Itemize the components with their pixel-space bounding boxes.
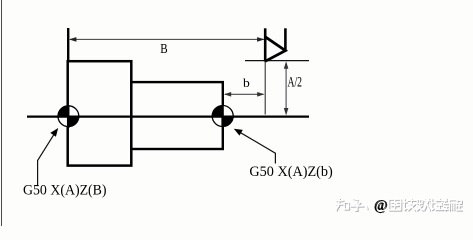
svg-text:G50 X(A)Z(b): G50 X(A)Z(b) [249, 164, 333, 180]
left page border line [1, 0, 3, 226]
svg-text:B: B [160, 42, 167, 57]
dimension A/2 line [285, 63, 287, 114]
leader arrowhead (right) [234, 129, 243, 136]
svg-text:@: @ [374, 197, 387, 213]
leader arrowhead (left) [50, 128, 58, 137]
large cylinder left edge over circle [67, 105, 70, 128]
datum target circle at left (G50 B point) [58, 106, 79, 127]
tool edge horizontal line [245, 60, 309, 62]
datum target circle at right (G50 b point) [212, 106, 233, 127]
dimension B line [70, 38, 264, 40]
workpiece large cylinder [68, 61, 132, 165]
leader line for G50 X(A)Z(b) [237, 130, 276, 163]
axis over right circle [212, 115, 234, 117]
dimension A/2 bottom arrowhead [284, 108, 289, 115]
extension line at left datum [67, 28, 69, 60]
leader line for G50 X(A)Z(B) [38, 131, 57, 186]
dimension b right arrowhead [257, 92, 264, 97]
axis over circle [57, 115, 80, 117]
tool symbol right shank line [284, 28, 287, 51]
svg-text:A/2: A/2 [288, 74, 303, 90]
small cylinder right edge over circle [221, 105, 223, 127]
dimension b line [225, 93, 263, 95]
dimension B right arrowhead [257, 37, 265, 42]
svg-text:G50 X(A)Z(B): G50 X(A)Z(B) [23, 183, 107, 199]
workpiece small cylinder [131, 82, 223, 149]
dimension B left arrowhead [69, 37, 77, 42]
tool symbol cutting triangle [265, 37, 285, 62]
svg-text:b: b [243, 75, 250, 90]
centerline (shaft axis) [27, 115, 309, 117]
dimension A/2 top arrowhead [284, 61, 289, 68]
dimension b left arrowhead [224, 92, 231, 97]
tool tip extension line down to axis [264, 61, 266, 115]
tool symbol left shank line [264, 28, 267, 61]
watermark: embossed "zhihu @..." imitation [336, 197, 462, 214]
